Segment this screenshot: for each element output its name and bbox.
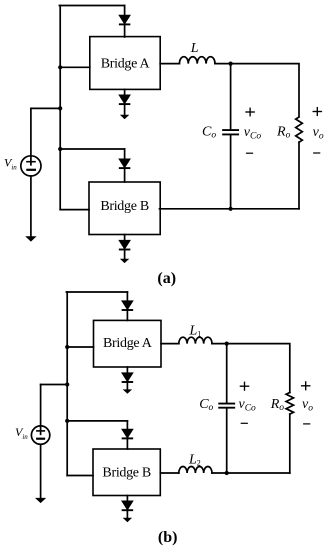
wire: L1 to top-right corner (b) <box>212 344 290 393</box>
minus mark vCo (a) <box>247 152 253 154</box>
minus mark vCo (b) <box>241 422 247 424</box>
arrow terminal below Bridge B (b) <box>123 518 132 522</box>
wire: Vin horizontal (b) <box>41 384 68 386</box>
inductor L1 (b) <box>179 337 212 343</box>
wire: Bridge A right to inductor (a) <box>160 63 179 65</box>
svg-text:Bridge B: Bridge B <box>102 465 151 480</box>
diode D7 below Bridge A (b) <box>123 373 133 382</box>
wire: to diode above Bridge B (b) <box>67 420 127 422</box>
svg-text:L2: L2 <box>188 452 201 467</box>
svg-text:Vin: Vin <box>4 156 17 172</box>
junction node (b) <box>65 382 69 386</box>
wire: capacitor top lead (b) <box>226 344 228 403</box>
svg-text:Bridge A: Bridge A <box>103 336 153 351</box>
junction node (b) <box>65 419 69 423</box>
plus mark vo (b) <box>302 382 310 390</box>
wire: drop to Bridge B top (b) <box>126 421 128 449</box>
bridge B box (b) <box>93 449 160 496</box>
wire: capacitor top lead (a) <box>230 64 232 130</box>
junction node (a) <box>58 147 62 151</box>
junction node (a) <box>58 106 62 110</box>
svg-text:L1: L1 <box>189 323 202 338</box>
wire: to diode above Bridge B (a) <box>60 148 124 150</box>
svg-text:(b): (b) <box>158 529 178 546</box>
wire: right rail lower (b) <box>289 414 291 473</box>
svg-text:Ro: Ro <box>276 124 291 140</box>
svg-text:Bridge A: Bridge A <box>101 56 151 71</box>
svg-text:Ro: Ro <box>270 397 285 413</box>
capacitor Co (a) <box>223 130 238 134</box>
svg-text:vCo: vCo <box>244 125 262 142</box>
bridge A box (b) <box>94 320 162 367</box>
junction node (a) <box>229 62 233 66</box>
plus mark vo (a) <box>313 108 321 116</box>
inductor L (a) <box>179 57 215 64</box>
wire: below Bridge B (b) <box>126 496 128 518</box>
wire: capacitor bottom lead (b) <box>226 409 228 473</box>
wire: Bridge A left (a) <box>60 66 90 68</box>
diode D6 above Bridge B (b) <box>123 430 133 439</box>
junction node (a) <box>229 207 233 211</box>
minus mark vo (a) <box>314 152 320 154</box>
plus mark vCo (b) <box>240 382 248 390</box>
wire: bottom rail (a) <box>160 208 300 210</box>
wire: below Bridge A (b) <box>126 367 128 390</box>
wire: left rail (a) <box>59 6 61 210</box>
wire: inductor to top-right corner (a) <box>215 64 299 117</box>
junction node (b) <box>65 345 69 349</box>
plus mark in Vin (a) <box>27 161 35 163</box>
wire: capacitor bottom lead (a) <box>230 135 232 209</box>
diode D5 above Bridge A (b) <box>123 301 133 310</box>
wire: Vin bottom lead (b) <box>40 444 42 498</box>
plus mark in Vin (b) <box>37 430 44 432</box>
svg-text:vo: vo <box>313 125 324 142</box>
wire: Vin horizontal (a) <box>31 107 60 109</box>
wire: left rail to Bridge B (b) <box>67 475 93 477</box>
wire: Bridge A right to inductor L1 (b) <box>161 343 179 345</box>
arrow terminal below Bridge A (a) <box>120 115 129 119</box>
svg-text:Co: Co <box>202 124 216 140</box>
svg-text:vCo: vCo <box>239 397 257 414</box>
junction node (a) <box>58 65 62 69</box>
svg-text:Co: Co <box>199 397 213 413</box>
arrow terminal below Bridge A (b) <box>123 389 132 393</box>
svg-text:vo: vo <box>302 397 313 414</box>
arrow terminal below Bridge B (a) <box>120 259 129 263</box>
diode D8 below Bridge B (b) <box>123 501 133 510</box>
wire: left rail to Bridge B (a) <box>60 209 89 211</box>
wire: bottom rail through L2 (b) <box>212 472 290 474</box>
wire: Vin top lead (b) <box>40 385 42 435</box>
wire: drop to Bridge A top (a) <box>124 6 126 38</box>
capacitor Co (b) <box>219 404 234 408</box>
plus mark vCo (a) <box>246 108 254 116</box>
wire: drop to Bridge B top (a) <box>124 149 126 182</box>
ground arrow (b) <box>35 498 46 503</box>
ground arrow (a) <box>25 236 36 241</box>
wire: Bridge B right to L2 (b) <box>160 472 179 474</box>
wire: Bridge A left (b) <box>67 346 93 348</box>
wire: below Bridge A (a) <box>124 89 126 115</box>
wire: below Bridge B (a) <box>124 235 126 260</box>
svg-text:Vin: Vin <box>15 425 28 441</box>
resistor Ro zigzag (a) <box>296 117 303 142</box>
junction node (b) <box>225 342 229 346</box>
wire: top horizontal (a) <box>59 5 124 7</box>
wire: Vin top lead (a) <box>30 108 32 164</box>
svg-text:L: L <box>190 41 199 56</box>
source Vin circle (b) <box>31 426 49 444</box>
diode D1 above Bridge A (a) <box>120 16 130 25</box>
resistor Ro zigzag (b) <box>286 393 293 415</box>
bridge A box (a) <box>90 37 160 90</box>
minus mark in Vin (a) <box>27 169 35 171</box>
junction node (b) <box>225 471 229 475</box>
diode D4 below Bridge B (a) <box>120 241 130 250</box>
minus mark in Vin (b) <box>37 438 44 440</box>
diode D3 below Bridge A (a) <box>120 95 130 104</box>
bridge B box (a) <box>89 182 160 235</box>
svg-text:Bridge B: Bridge B <box>100 199 149 214</box>
minus mark vo (b) <box>304 423 310 425</box>
wire: Vin bottom lead (a) <box>30 176 32 237</box>
inductor L2 (b) <box>179 467 212 474</box>
diode D2 above Bridge B (a) <box>120 159 130 168</box>
wire: right rail lower (a) <box>298 142 300 209</box>
wire: top horizontal (b) <box>66 291 127 293</box>
source Vin circle (a) <box>21 156 41 176</box>
wire: left rail (b) <box>66 292 68 476</box>
svg-text:(a): (a) <box>157 270 176 287</box>
wire: drop to Bridge A top (b) <box>126 292 128 320</box>
